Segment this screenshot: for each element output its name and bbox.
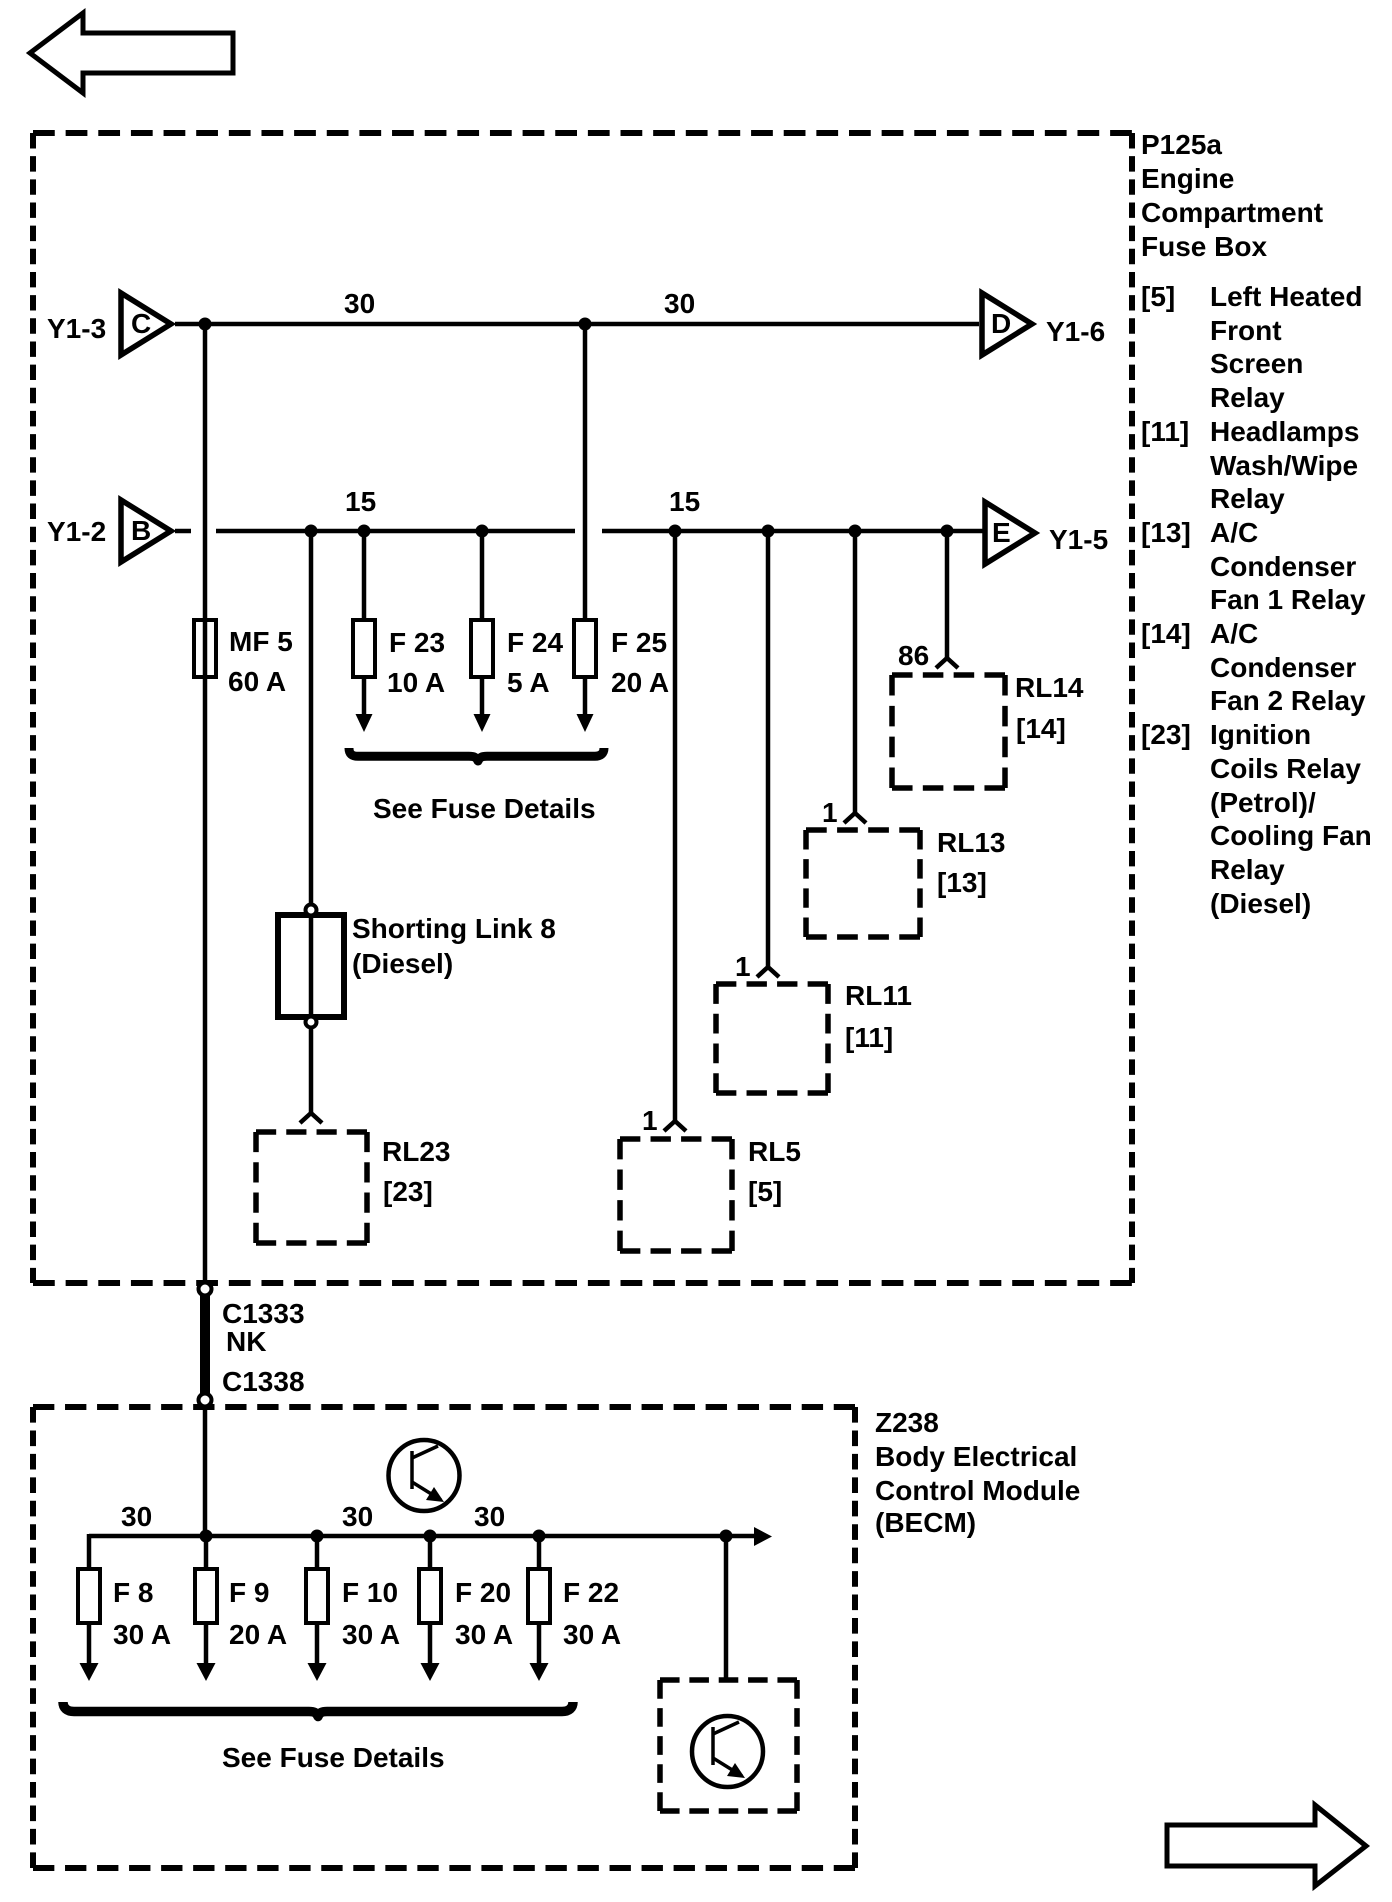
svg-text:(BECM): (BECM) xyxy=(875,1507,976,1538)
svg-text:30 A: 30 A xyxy=(455,1619,513,1650)
svg-text:1: 1 xyxy=(735,951,751,982)
svg-text:F 22: F 22 xyxy=(563,1577,619,1608)
svg-text:RL23: RL23 xyxy=(382,1136,450,1167)
svg-text:30: 30 xyxy=(121,1501,152,1532)
svg-text:[14]: [14] xyxy=(1016,713,1066,744)
svg-text:1: 1 xyxy=(642,1105,658,1136)
svg-text:[13]: [13] xyxy=(937,867,987,898)
svg-text:See Fuse Details: See Fuse Details xyxy=(222,1742,445,1773)
svg-text:F 25: F 25 xyxy=(611,627,667,658)
svg-text:MF 5: MF 5 xyxy=(229,626,293,657)
svg-text:86: 86 xyxy=(898,640,929,671)
svg-text:Coils Relay: Coils Relay xyxy=(1210,753,1361,784)
svg-text:Y1-3: Y1-3 xyxy=(47,313,106,344)
svg-text:Y1-5: Y1-5 xyxy=(1049,524,1108,555)
svg-text:E: E xyxy=(992,517,1011,548)
svg-text:30 A: 30 A xyxy=(563,1619,621,1650)
svg-text:Relay: Relay xyxy=(1210,854,1285,885)
svg-text:(Diesel): (Diesel) xyxy=(1210,888,1311,919)
svg-text:10 A: 10 A xyxy=(387,667,445,698)
svg-text:F 8: F 8 xyxy=(113,1577,153,1608)
svg-text:Screen: Screen xyxy=(1210,348,1303,379)
svg-text:30: 30 xyxy=(664,288,695,319)
svg-text:15: 15 xyxy=(345,486,376,517)
svg-text:Compartment: Compartment xyxy=(1141,197,1323,228)
svg-text:30: 30 xyxy=(342,1501,373,1532)
svg-text:C1333: C1333 xyxy=(222,1298,305,1329)
svg-text:RL14: RL14 xyxy=(1015,672,1084,703)
svg-text:5 A: 5 A xyxy=(507,667,550,698)
svg-text:[5]: [5] xyxy=(1141,281,1175,312)
svg-text:1: 1 xyxy=(822,797,838,828)
svg-text:NK: NK xyxy=(226,1326,266,1357)
svg-text:Control Module: Control Module xyxy=(875,1475,1080,1506)
svg-text:B: B xyxy=(131,515,151,546)
svg-text:A/C: A/C xyxy=(1210,618,1258,649)
svg-text:Cooling Fan: Cooling Fan xyxy=(1210,820,1372,851)
svg-text:Condenser: Condenser xyxy=(1210,652,1356,683)
svg-text:C1338: C1338 xyxy=(222,1366,305,1397)
svg-text:Left Heated: Left Heated xyxy=(1210,281,1362,312)
svg-text:D: D xyxy=(991,308,1011,339)
svg-text:Fan 2 Relay: Fan 2 Relay xyxy=(1210,685,1366,716)
svg-text:Z238: Z238 xyxy=(875,1407,939,1438)
svg-text:Relay: Relay xyxy=(1210,382,1285,413)
svg-text:30 A: 30 A xyxy=(113,1619,171,1650)
svg-text:(Diesel): (Diesel) xyxy=(352,948,453,979)
svg-text:F 24: F 24 xyxy=(507,627,563,658)
svg-text:F 10: F 10 xyxy=(342,1577,398,1608)
svg-text:RL5: RL5 xyxy=(748,1136,801,1167)
svg-text:Engine: Engine xyxy=(1141,163,1234,194)
svg-text:RL13: RL13 xyxy=(937,827,1005,858)
svg-text:P125a: P125a xyxy=(1141,129,1222,160)
svg-text:30: 30 xyxy=(474,1501,505,1532)
svg-text:Relay: Relay xyxy=(1210,483,1285,514)
svg-text:[23]: [23] xyxy=(1141,719,1191,750)
svg-text:15: 15 xyxy=(669,486,700,517)
svg-text:20 A: 20 A xyxy=(611,667,669,698)
svg-text:[11]: [11] xyxy=(1141,416,1189,447)
svg-text:Fan 1 Relay: Fan 1 Relay xyxy=(1210,584,1366,615)
svg-text:Condenser: Condenser xyxy=(1210,551,1356,582)
svg-text:Y1-2: Y1-2 xyxy=(47,516,106,547)
svg-text:Y1-6: Y1-6 xyxy=(1046,316,1105,347)
svg-text:20 A: 20 A xyxy=(229,1619,287,1650)
svg-text:Ignition: Ignition xyxy=(1210,719,1311,750)
svg-text:30 A: 30 A xyxy=(342,1619,400,1650)
svg-text:30: 30 xyxy=(344,288,375,319)
svg-text:[13]: [13] xyxy=(1141,517,1191,548)
svg-text:Headlamps: Headlamps xyxy=(1210,416,1359,447)
svg-text:Body Electrical: Body Electrical xyxy=(875,1441,1077,1472)
svg-text:F 23: F 23 xyxy=(389,627,445,658)
svg-text:RL11: RL11 xyxy=(845,980,912,1011)
svg-text:Shorting Link 8: Shorting Link 8 xyxy=(352,913,556,944)
svg-text:See Fuse Details: See Fuse Details xyxy=(373,793,596,824)
svg-text:[5]: [5] xyxy=(748,1176,782,1207)
svg-text:A/C: A/C xyxy=(1210,517,1258,548)
svg-text:[11]: [11] xyxy=(845,1022,893,1053)
svg-text:Front: Front xyxy=(1210,315,1282,346)
svg-text:C: C xyxy=(131,308,151,339)
svg-text:[23]: [23] xyxy=(383,1176,433,1207)
svg-text:Wash/Wipe: Wash/Wipe xyxy=(1210,450,1358,481)
svg-text:60 A: 60 A xyxy=(228,666,286,697)
svg-text:F 9: F 9 xyxy=(229,1577,269,1608)
svg-text:(Petrol)/: (Petrol)/ xyxy=(1210,787,1316,818)
svg-text:[14]: [14] xyxy=(1141,618,1191,649)
svg-text:F 20: F 20 xyxy=(455,1577,511,1608)
svg-text:Fuse Box: Fuse Box xyxy=(1141,231,1267,262)
